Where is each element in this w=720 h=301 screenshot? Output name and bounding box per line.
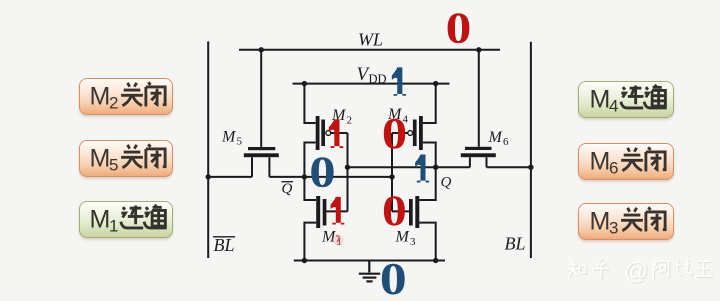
annotation button M6 off: [578, 143, 674, 180]
laser pointer artifact near M1 label: [333, 235, 344, 246]
svg-text:M: M: [590, 85, 611, 113]
svg-text:M: M: [221, 129, 237, 146]
label M5: [221, 129, 243, 148]
wire vertical A: M2 drain / M1 drain column: [304, 84, 316, 261]
junction dot ground/M3: [433, 258, 438, 263]
wire vertical B: gate net of M2/M1 (cross-couple to Q): [326, 133, 347, 211]
svg-text:M: M: [90, 145, 111, 173]
watermark zhihu @abiwang: [562, 255, 720, 295]
junction dot BL/M6: [528, 165, 533, 170]
annotation button M2 off: [79, 78, 173, 115]
wire node Q line (vertical B to M6 left terminal): [348, 157, 470, 167]
label M6: [488, 129, 510, 148]
transistor M2 (PMOS): [316, 116, 331, 150]
wire node Qbar line (M5 left terminal to BLbar): [208, 157, 252, 177]
svg-text:6: 6: [503, 136, 509, 148]
wire WL rail: [239, 49, 500, 51]
svg-text:Q: Q: [282, 181, 293, 197]
wire ground rail: [294, 260, 445, 262]
label M4: [387, 106, 409, 126]
svg-text:M: M: [90, 82, 111, 110]
svg-text:DD: DD: [369, 72, 387, 86]
junction dot Q/vertical D: [433, 165, 438, 170]
value 1 at M2 gate (red): [329, 119, 343, 148]
label BLbar: [213, 235, 235, 255]
label node Qbar: [282, 181, 294, 197]
svg-text:0: 0: [309, 148, 335, 197]
junction dot WL/M5 gate: [259, 47, 264, 52]
svg-text:0: 0: [446, 4, 472, 53]
svg-text:0: 0: [382, 110, 407, 158]
annotation button M3 off: [578, 203, 674, 241]
junction dot ground/M1: [302, 258, 307, 263]
svg-text:1: 1: [109, 216, 118, 235]
label M2: [331, 107, 352, 127]
wire node Qbar line (M5 right terminal to vertical C): [269, 157, 392, 177]
svg-text:M: M: [90, 205, 111, 233]
svg-text:5: 5: [237, 136, 243, 148]
wire VDD rail: [293, 83, 450, 85]
svg-text:BL: BL: [505, 234, 526, 254]
wire BL bit line (right vertical): [530, 42, 532, 258]
svg-text:2: 2: [109, 93, 118, 112]
svg-text:M: M: [590, 147, 611, 175]
junction dot VDD/M4 source: [433, 81, 438, 86]
label M3: [395, 229, 417, 249]
value 1 on VDD (blue): [392, 67, 406, 95]
wire M6 right terminal to BL: [487, 157, 531, 167]
hidden defs for CJK glyph strokes: [0, 0, 6, 6]
svg-text:0: 0: [382, 188, 407, 235]
junction dot VDD/M2 source: [302, 81, 307, 86]
junction dot WL/M6 gate: [476, 47, 481, 52]
svg-text:3: 3: [609, 218, 618, 237]
svg-text:WL: WL: [358, 30, 383, 50]
ground symbol: [359, 261, 380, 282]
label M1: [321, 229, 342, 249]
svg-text:Q: Q: [441, 175, 452, 191]
wire M5 gate to WL: [260, 50, 262, 147]
svg-text:@: @: [624, 258, 648, 285]
annotation button M4 on: [578, 81, 674, 119]
transistor M4 (PMOS): [408, 116, 423, 150]
svg-text:2: 2: [347, 115, 353, 127]
transistor M1 (NMOS): [316, 196, 326, 228]
junction dot Q/vertical B: [345, 165, 350, 170]
wire BLbar bit line (left vertical): [207, 41, 209, 258]
transistor M5 (NMOS access, horizontal): [244, 147, 279, 157]
junction dot Qbar/vertical A: [302, 174, 307, 179]
wire vertical C: gate net of M4/M3 (cross-couple to Qbar): [392, 133, 409, 211]
value 1 at node Q (blue): [415, 155, 429, 183]
value 1 at M1 gate (red): [331, 197, 345, 225]
annotation button M5 off: [79, 140, 173, 177]
junction dot Qbar/vertical C: [389, 174, 394, 179]
wire M6 gate to WL: [478, 50, 480, 147]
svg-text:5: 5: [109, 156, 118, 175]
svg-text:M: M: [590, 207, 611, 235]
wire vertical D: M4 drain / M3 drain column: [419, 84, 435, 261]
annotation button M1 on: [79, 201, 173, 238]
svg-text:M: M: [488, 129, 504, 146]
junction dot BLbar/M5: [206, 174, 211, 179]
label VDD: [357, 64, 387, 86]
svg-text:4: 4: [609, 96, 618, 115]
transistor M3 (NMOS): [409, 196, 419, 228]
svg-text:0: 0: [380, 254, 407, 301]
transistor M6 (NMOS access, horizontal): [461, 147, 496, 157]
svg-text:6: 6: [609, 158, 618, 177]
svg-text:BL: BL: [214, 235, 235, 255]
svg-text:3: 3: [410, 236, 416, 248]
